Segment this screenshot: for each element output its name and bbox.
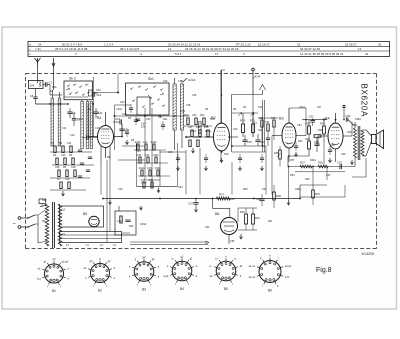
aerial input transformer 104 bbox=[29, 81, 44, 89]
label C24A bbox=[183, 78, 196, 82]
svg-text:S2A: S2A bbox=[52, 86, 57, 89]
svg-text:C11: C11 bbox=[98, 111, 103, 115]
misc labels field bbox=[50, 89, 352, 226]
wiring bus table bbox=[28, 42, 390, 57]
svg-text:15 16 17: 15 16 17 bbox=[258, 42, 270, 46]
svg-text:Sk1: Sk1 bbox=[148, 77, 154, 81]
svg-text:R10A: R10A bbox=[135, 141, 141, 144]
svg-text:C41: C41 bbox=[143, 142, 148, 144]
svg-text:25: 25 bbox=[378, 42, 382, 46]
coil L2 strip bbox=[51, 98, 54, 146]
svg-text:B1: B1 bbox=[52, 289, 56, 293]
resistor R28 bbox=[305, 120, 310, 134]
svg-text:R33: R33 bbox=[290, 174, 295, 177]
svg-text:3-15: 3-15 bbox=[252, 122, 257, 125]
svg-text:e1,e1: e1,e1 bbox=[249, 264, 256, 268]
svg-text:3-15: 3-15 bbox=[180, 110, 186, 113]
svg-text:k,f1: k,f1 bbox=[285, 275, 290, 279]
svg-text:25 28 27: 25 28 27 bbox=[345, 42, 357, 46]
svg-text:C40: C40 bbox=[96, 89, 101, 92]
capacitor C27 bbox=[188, 198, 198, 212]
svg-text:~: ~ bbox=[13, 222, 16, 228]
svg-text:C13: C13 bbox=[122, 113, 127, 116]
svg-text:g2,g4: g2,g4 bbox=[62, 259, 69, 263]
wire dropdowns bbox=[101, 108, 266, 242]
capacitor C63 bbox=[256, 194, 265, 206]
svg-text:R23: R23 bbox=[271, 117, 276, 120]
wire coil feeds bbox=[52, 90, 87, 102]
svg-text:C65: C65 bbox=[230, 240, 235, 243]
svg-text:C24A: C24A bbox=[188, 78, 196, 82]
svg-text:B6: B6 bbox=[215, 212, 219, 216]
svg-text:C52: C52 bbox=[309, 115, 315, 119]
svg-text:R26: R26 bbox=[318, 161, 323, 165]
svg-text:C47A: C47A bbox=[147, 167, 153, 170]
svg-text:C60: C60 bbox=[178, 186, 183, 189]
svg-text:C11A: C11A bbox=[77, 118, 83, 121]
svg-text:C55: C55 bbox=[314, 140, 319, 144]
capacitor C18 bbox=[93, 92, 101, 97]
socket B6 bbox=[249, 255, 292, 293]
earth terminal bbox=[52, 58, 55, 67]
coil L4 strip bbox=[81, 102, 84, 149]
svg-text:C57: C57 bbox=[290, 159, 295, 162]
svg-text:R12: R12 bbox=[200, 114, 205, 117]
switch S1 bbox=[27, 215, 46, 228]
capacitor C7 bbox=[43, 81, 53, 96]
mains transformer S30 bbox=[38, 198, 62, 248]
svg-text:C45: C45 bbox=[188, 126, 193, 129]
svg-text:C35: C35 bbox=[178, 80, 183, 83]
grid stopper R32 bbox=[314, 128, 323, 137]
detector network bbox=[258, 117, 278, 146]
svg-text:C13: C13 bbox=[115, 117, 121, 121]
svg-text:B1: B1 bbox=[97, 116, 102, 120]
svg-text:k,g3: k,g3 bbox=[163, 274, 168, 278]
svg-text:24: 24 bbox=[38, 42, 42, 46]
svg-text:R31A: R31A bbox=[310, 159, 316, 162]
filament wiring L1 L2 L3 bbox=[60, 232, 131, 248]
wire anode supply row bbox=[205, 70, 239, 137]
wire B3 leads bbox=[272, 108, 306, 162]
svg-text:14: 14 bbox=[168, 47, 172, 51]
svg-text:R13A: R13A bbox=[205, 130, 211, 133]
socket B5 bbox=[209, 255, 243, 291]
wire B6 net bbox=[238, 208, 257, 239]
svg-text:C39: C39 bbox=[117, 220, 122, 223]
capacitor C16 bbox=[119, 124, 129, 136]
svg-text:B6: B6 bbox=[268, 289, 272, 293]
wire B6 leads bbox=[212, 199, 229, 245]
svg-text:R17: R17 bbox=[149, 180, 154, 182]
capacitor C53 bbox=[343, 105, 354, 125]
svg-text:104: 104 bbox=[30, 83, 35, 87]
svg-text:17: 17 bbox=[215, 52, 219, 56]
svg-text:a2,a1: a2,a1 bbox=[285, 264, 292, 268]
rectifier tube B5 bbox=[89, 216, 99, 226]
svg-text:34: 34 bbox=[365, 52, 369, 56]
svg-text:1 2 3 4: 1 2 3 4 bbox=[104, 42, 114, 46]
tube B3 bbox=[279, 117, 296, 149]
mains plug bbox=[13, 217, 29, 229]
svg-text:C9: C9 bbox=[72, 111, 76, 115]
svg-text:R34: R34 bbox=[315, 192, 320, 196]
svg-text:R10: R10 bbox=[184, 114, 189, 117]
svg-text:23: 23 bbox=[297, 42, 301, 46]
tube B1 bbox=[97, 116, 114, 148]
svg-text:R24: R24 bbox=[129, 225, 134, 228]
resistor R29 bbox=[305, 134, 310, 156]
capacitor C13 bbox=[113, 117, 122, 125]
svg-text:B5: B5 bbox=[83, 212, 87, 216]
svg-text:PT 20 1 22: PT 20 1 22 bbox=[236, 42, 251, 46]
svg-text:R27: R27 bbox=[300, 161, 305, 165]
wire speaker return bbox=[352, 158, 366, 177]
svg-text:C15: C15 bbox=[95, 127, 100, 130]
loudspeaker bbox=[366, 130, 384, 156]
svg-text:C43: C43 bbox=[137, 155, 142, 157]
figure caption bbox=[316, 267, 332, 274]
svg-text:Fig.8: Fig.8 bbox=[316, 267, 332, 274]
resistor R39 bbox=[240, 208, 247, 230]
output transformer S29 bbox=[352, 122, 366, 165]
arrows on R19 R21 bbox=[238, 113, 254, 117]
IF transformer coil pair near B1 bbox=[90, 102, 92, 149]
volume pot R25 bbox=[274, 146, 281, 167]
coil L5 strip bbox=[86, 102, 89, 149]
switch Sk2 bbox=[64, 77, 93, 100]
resistor R19 bbox=[240, 113, 246, 137]
fuse VL bbox=[39, 199, 46, 207]
extra grounds bbox=[109, 140, 354, 205]
svg-text:i.c.: i.c. bbox=[209, 264, 213, 268]
resistor R30 bbox=[320, 118, 325, 142]
svg-text:R31: R31 bbox=[298, 140, 303, 143]
svg-text:20 26 34 14 11 12 13 14: 20 26 34 14 11 12 13 14 bbox=[168, 42, 201, 46]
capacitor C17 bbox=[72, 113, 82, 126]
socket B4 bbox=[163, 254, 197, 291]
coil S4 strip bbox=[173, 84, 176, 130]
wire B4 leads bbox=[318, 113, 352, 162]
svg-text:R30: R30 bbox=[320, 122, 325, 126]
svg-text:S27: S27 bbox=[317, 106, 322, 109]
socket B1 bbox=[37, 257, 69, 293]
svg-text:C44: C44 bbox=[136, 150, 141, 153]
svg-text:34 30 27 12 36: 34 30 27 12 36 bbox=[300, 47, 320, 51]
svg-text:R35: R35 bbox=[230, 198, 235, 201]
svg-text:R25: R25 bbox=[274, 152, 279, 155]
svg-text:C7: C7 bbox=[49, 81, 53, 85]
svg-text:R16: R16 bbox=[194, 136, 199, 139]
svg-text:S28: S28 bbox=[347, 131, 352, 134]
svg-text:R41: R41 bbox=[268, 220, 273, 223]
wire input net bbox=[36, 95, 69, 104]
svg-text:C63: C63 bbox=[256, 198, 261, 201]
wire IF stage bbox=[232, 113, 266, 146]
misc labels field 2 bbox=[52, 80, 361, 243]
svg-text:C27: C27 bbox=[188, 202, 194, 206]
svg-text:14 34 21 35 38 35 33 9 35 25 3: 14 34 21 35 38 35 33 9 35 25 31 bbox=[300, 52, 344, 56]
svg-text:C51: C51 bbox=[265, 121, 270, 124]
label C44 bbox=[253, 75, 261, 80]
extra mid vertical wires bbox=[272, 120, 352, 195]
svg-text:a1,a1: a1,a1 bbox=[249, 275, 256, 279]
trimmer C8 bbox=[30, 89, 38, 105]
wire B1 leads bbox=[88, 112, 122, 166]
svg-text:k,g: k,g bbox=[37, 276, 41, 280]
IF coil S7 bbox=[199, 122, 209, 134]
svg-text:C64: C64 bbox=[205, 226, 210, 229]
svg-text:R37: R37 bbox=[219, 193, 225, 197]
reference number K14209 bbox=[362, 252, 374, 256]
IF network components bbox=[184, 114, 212, 153]
svg-text:C51A: C51A bbox=[299, 106, 305, 109]
resistor R37 bbox=[217, 193, 231, 201]
wire HT rail bbox=[103, 185, 300, 199]
rectifier box bbox=[60, 206, 104, 227]
resistor R38 bbox=[273, 185, 282, 208]
extra horizontal runs bbox=[118, 146, 345, 197]
socket B3 bbox=[129, 255, 160, 292]
svg-text:28 5 3 4 6 40 41 11 5 38: 28 5 3 4 6 40 41 11 5 38 bbox=[55, 47, 88, 51]
junction dots bbox=[49, 92, 336, 200]
svg-text:C46: C46 bbox=[168, 151, 173, 154]
trimmer C9 bbox=[67, 108, 75, 118]
svg-text:C25: C25 bbox=[55, 166, 60, 169]
svg-text:B3: B3 bbox=[279, 117, 284, 121]
svg-text:C42: C42 bbox=[192, 114, 197, 117]
svg-text:S10: S10 bbox=[258, 106, 263, 109]
svg-text:C38: C38 bbox=[186, 104, 191, 107]
svg-text:Sk 2: Sk 2 bbox=[69, 77, 76, 81]
terminal P bbox=[252, 68, 255, 95]
svg-text:R22: R22 bbox=[259, 117, 264, 120]
svg-text:C10A: C10A bbox=[116, 108, 122, 111]
svg-text:C70: C70 bbox=[337, 161, 342, 165]
svg-text:BX620A: BX620A bbox=[360, 84, 369, 118]
svg-text:R36: R36 bbox=[243, 188, 248, 191]
svg-text:R39: R39 bbox=[240, 211, 245, 214]
svg-text:S30: S30 bbox=[42, 198, 47, 202]
svg-text:30 31 5 4 7 8 9: 30 31 5 4 7 8 9 bbox=[62, 42, 82, 46]
negative feedback network bbox=[287, 156, 355, 205]
svg-text:38 1 2 43 13 8: 38 1 2 43 13 8 bbox=[120, 47, 140, 51]
svg-text:R12A: R12A bbox=[151, 141, 157, 144]
AF coupling cluster bbox=[134, 141, 178, 193]
svg-text:B5: B5 bbox=[224, 287, 228, 291]
svg-text:C44: C44 bbox=[256, 75, 261, 79]
svg-text:C49: C49 bbox=[233, 128, 238, 131]
svg-text:12: 12 bbox=[62, 208, 66, 212]
oscillator section components bbox=[50, 142, 94, 196]
svg-text:C66A: C66A bbox=[295, 188, 301, 191]
wire AVC line bbox=[64, 70, 306, 137]
svg-text:C45A: C45A bbox=[153, 154, 159, 157]
wire osc grid net bbox=[93, 74, 190, 150]
svg-text:R18: R18 bbox=[224, 153, 229, 156]
capacitor C52 bbox=[302, 115, 327, 127]
svg-text:C39A: C39A bbox=[140, 223, 147, 226]
svg-text:5 6 1: 5 6 1 bbox=[175, 52, 182, 56]
wire osc coil leads bbox=[175, 78, 182, 150]
svg-text:R38: R38 bbox=[276, 194, 281, 198]
svg-text:C46A: C46A bbox=[190, 130, 196, 133]
wire B2 leads bbox=[205, 70, 238, 162]
padder C10 bbox=[89, 90, 99, 96]
tube B2 bbox=[211, 116, 230, 151]
svg-text:C29: C29 bbox=[163, 80, 168, 83]
svg-text:R32: R32 bbox=[318, 128, 323, 132]
antenna terminal bbox=[35, 58, 41, 66]
svg-text:R14A: R14A bbox=[139, 167, 145, 170]
svg-text:C58: C58 bbox=[330, 144, 335, 147]
svg-text:R16A: R16A bbox=[155, 167, 161, 170]
svg-text:C62: C62 bbox=[262, 188, 267, 191]
svg-text:C33: C33 bbox=[146, 118, 151, 121]
tube B4 bbox=[325, 117, 343, 150]
svg-text:B2: B2 bbox=[98, 289, 102, 293]
svg-text:14: 14 bbox=[358, 47, 362, 51]
capacitor C34 10k bbox=[136, 119, 146, 128]
capacitor C50 bbox=[242, 135, 252, 146]
svg-text:C54: C54 bbox=[297, 124, 302, 127]
svg-text:B3: B3 bbox=[142, 287, 146, 291]
tube B6 bbox=[215, 212, 238, 235]
svg-text:7 41: 7 41 bbox=[35, 47, 41, 51]
wire heater run bbox=[130, 241, 209, 245]
svg-text:C14: C14 bbox=[62, 127, 67, 130]
wire screen feed bbox=[232, 85, 266, 153]
svg-text:R40: R40 bbox=[255, 217, 260, 220]
switch Sk1 bbox=[126, 77, 170, 115]
svg-text:5-25: 5-25 bbox=[210, 118, 215, 121]
svg-text:i.c.: i.c. bbox=[234, 257, 238, 261]
tone network box bbox=[115, 206, 143, 235]
svg-text:R11: R11 bbox=[163, 118, 168, 121]
svg-text:C23: C23 bbox=[61, 154, 66, 157]
coil L3 strip bbox=[58, 98, 61, 146]
extra caps sprinkle bbox=[125, 104, 332, 163]
svg-text:B4: B4 bbox=[180, 287, 184, 291]
trimmer C11 bbox=[93, 108, 103, 118]
svg-text:B4: B4 bbox=[325, 117, 330, 121]
svg-text:C48: C48 bbox=[204, 125, 209, 128]
svg-text:C66: C66 bbox=[305, 178, 310, 181]
svg-text:K14209: K14209 bbox=[362, 252, 374, 256]
coil S5 strip bbox=[180, 84, 183, 130]
svg-text:C30: C30 bbox=[65, 178, 70, 181]
svg-text:C59: C59 bbox=[341, 153, 346, 156]
svg-text:C36: C36 bbox=[192, 94, 197, 97]
svg-text:C22: C22 bbox=[118, 188, 123, 191]
svg-text:R13: R13 bbox=[145, 155, 150, 157]
wire antenna lead bbox=[38, 66, 54, 90]
capacitor C48 bbox=[255, 134, 265, 146]
svg-text:R29: R29 bbox=[305, 137, 310, 141]
svg-text:C43: C43 bbox=[120, 101, 125, 104]
svg-text:i.c.: i.c. bbox=[215, 257, 219, 261]
svg-text:C50: C50 bbox=[247, 140, 252, 144]
capacitor C55 bbox=[314, 138, 320, 152]
svg-text:i.c.: i.c. bbox=[171, 257, 175, 261]
svg-text:C48A: C48A bbox=[141, 182, 147, 185]
capacitor C15 bbox=[82, 135, 98, 139]
resistor R21 bbox=[250, 113, 256, 137]
model label BX620A bbox=[360, 84, 369, 118]
svg-text:C21: C21 bbox=[67, 142, 72, 145]
svg-text:S28A: S28A bbox=[355, 118, 361, 121]
resistor R40 bbox=[252, 208, 261, 230]
svg-text:C28: C28 bbox=[71, 166, 76, 169]
chassis outline (dashed) bbox=[26, 74, 377, 249]
socket B2 bbox=[84, 258, 116, 293]
svg-text:C47: C47 bbox=[186, 136, 191, 139]
svg-text:34 15 16 17 18 19 42 39 37 44: 34 15 16 17 18 19 42 39 37 44 21 23 33 bbox=[185, 47, 239, 51]
svg-text:C12: C12 bbox=[70, 134, 75, 137]
svg-text:S11: S11 bbox=[258, 129, 263, 132]
